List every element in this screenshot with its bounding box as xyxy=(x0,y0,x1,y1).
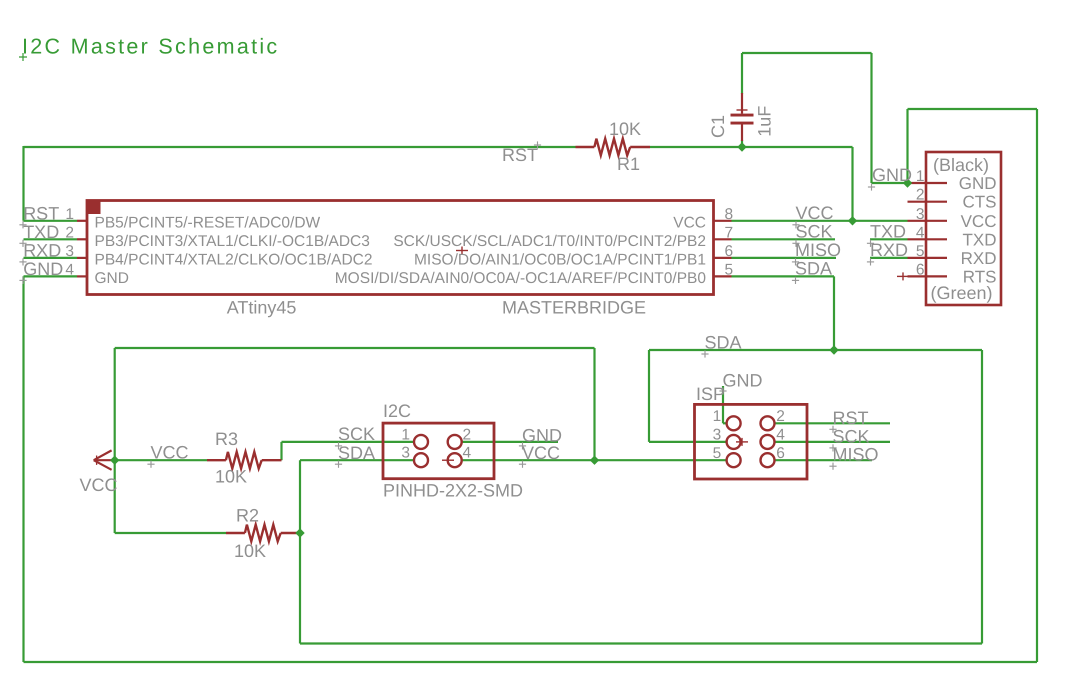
svg-text:SDA: SDA xyxy=(705,333,742,353)
svg-text:1uF: 1uF xyxy=(755,106,775,137)
svg-text:RST: RST xyxy=(502,145,538,165)
svg-text:10K: 10K xyxy=(215,467,247,487)
svg-text:5: 5 xyxy=(713,445,722,462)
svg-text:GND: GND xyxy=(959,174,997,193)
svg-text:(Black): (Black) xyxy=(933,155,989,175)
svg-text:CTS: CTS xyxy=(963,193,997,212)
svg-text:7: 7 xyxy=(725,224,734,241)
svg-text:RXD: RXD xyxy=(870,240,908,260)
svg-text:MOSI/DI/SDA/AIN0/OC0A/-OC1A/AR: MOSI/DI/SDA/AIN0/OC0A/-OC1A/AREF/PCINT0/… xyxy=(335,270,707,287)
svg-text:1: 1 xyxy=(65,206,74,223)
svg-text:10K: 10K xyxy=(234,541,266,561)
svg-text:2: 2 xyxy=(776,408,785,425)
svg-text:PB4/PCINT4/XTAL2/CLKO/OC1B/ADC: PB4/PCINT4/XTAL2/CLKO/OC1B/ADC2 xyxy=(95,251,373,268)
svg-text:SCK: SCK xyxy=(796,221,833,241)
svg-text:4: 4 xyxy=(776,427,785,444)
svg-text:RXD: RXD xyxy=(961,249,997,268)
svg-text:2: 2 xyxy=(65,224,74,241)
svg-text:VCC: VCC xyxy=(673,214,706,231)
svg-text:VCC: VCC xyxy=(796,203,834,223)
svg-text:ATtiny45: ATtiny45 xyxy=(227,298,297,318)
svg-text:R1: R1 xyxy=(617,154,640,174)
svg-text:RST: RST xyxy=(23,203,59,223)
svg-text:RST: RST xyxy=(833,408,869,428)
svg-text:10K: 10K xyxy=(609,119,641,139)
svg-text:I2C Master Schematic: I2C Master Schematic xyxy=(22,35,279,59)
svg-text:5: 5 xyxy=(916,243,925,260)
svg-text:R3: R3 xyxy=(215,429,238,449)
svg-text:3: 3 xyxy=(401,445,410,462)
svg-text:C1: C1 xyxy=(708,115,728,138)
svg-text:RTS: RTS xyxy=(963,267,997,286)
svg-text:VCC: VCC xyxy=(961,212,997,231)
svg-text:RXD: RXD xyxy=(23,240,61,260)
svg-text:MISO/DO/AIN1/OC0B/OC1A/PCINT1/: MISO/DO/AIN1/OC0B/OC1A/PCINT1/PB1 xyxy=(414,251,706,268)
svg-text:2: 2 xyxy=(916,187,925,204)
svg-text:MASTERBRIDGE: MASTERBRIDGE xyxy=(502,298,646,318)
svg-text:VCC: VCC xyxy=(80,475,118,495)
svg-text:R2: R2 xyxy=(236,506,259,526)
svg-text:1: 1 xyxy=(401,426,410,443)
svg-text:MISO: MISO xyxy=(833,445,879,465)
svg-text:VCC: VCC xyxy=(151,443,189,463)
svg-text:4: 4 xyxy=(65,261,74,278)
svg-text:8: 8 xyxy=(725,206,734,223)
svg-text:SCK: SCK xyxy=(833,426,870,446)
svg-text:PINHD-2X2-SMD: PINHD-2X2-SMD xyxy=(383,481,523,501)
svg-text:PB5/PCINT5/-RESET/ADC0/DW: PB5/PCINT5/-RESET/ADC0/DW xyxy=(95,214,321,231)
svg-text:SDA: SDA xyxy=(338,443,375,463)
svg-text:GND: GND xyxy=(23,259,63,279)
svg-text:2: 2 xyxy=(463,426,472,443)
svg-text:TXD: TXD xyxy=(963,230,997,249)
svg-text:6: 6 xyxy=(916,261,925,278)
svg-text:3: 3 xyxy=(916,206,925,223)
svg-text:GND: GND xyxy=(872,165,912,185)
svg-text:1: 1 xyxy=(713,408,722,425)
svg-text:1: 1 xyxy=(916,168,925,185)
svg-text:6: 6 xyxy=(776,445,785,462)
svg-text:PB3/PCINT3/XTAL1/CLKI/-OC1B/AD: PB3/PCINT3/XTAL1/CLKI/-OC1B/ADC3 xyxy=(95,233,370,250)
svg-text:3: 3 xyxy=(65,243,74,260)
svg-text:SCK: SCK xyxy=(338,424,375,444)
svg-text:VCC: VCC xyxy=(522,443,560,463)
svg-text:TXD: TXD xyxy=(870,221,906,241)
svg-text:5: 5 xyxy=(725,261,734,278)
svg-text:6: 6 xyxy=(725,243,734,260)
svg-text:ISP: ISP xyxy=(696,384,725,404)
svg-text:MISO: MISO xyxy=(795,240,841,260)
svg-text:4: 4 xyxy=(916,224,925,241)
svg-text:TXD: TXD xyxy=(23,222,59,242)
svg-text:I2C: I2C xyxy=(383,401,411,421)
svg-text:GND: GND xyxy=(95,270,129,287)
svg-text:3: 3 xyxy=(713,427,722,444)
svg-text:4: 4 xyxy=(463,445,472,462)
svg-text:SDA: SDA xyxy=(795,258,832,278)
svg-text:SCK/USCK/SCL/ADC1/T0/INT0/PCIN: SCK/USCK/SCL/ADC1/T0/INT0/PCINT2/PB2 xyxy=(393,233,706,250)
svg-text:GND: GND xyxy=(723,371,763,391)
